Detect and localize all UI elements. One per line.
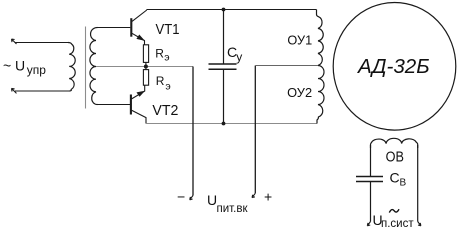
label Cв — [390, 170, 407, 189]
wire Cв to bottom terminal — [370, 182, 372, 222]
wire ОУ tap to plus wire — [255, 65, 318, 67]
resistor R2 — [143, 70, 148, 86]
svg-text:э: э — [165, 81, 170, 93]
svg-text:+: + — [264, 189, 272, 205]
winding ОВ — [371, 138, 418, 148]
terminal arrow ОВ right — [418, 222, 421, 226]
svg-text:C: C — [390, 170, 400, 186]
terminal arrow ОВ left — [367, 222, 370, 226]
wire minus vertical — [192, 67, 194, 196]
svg-text:VT2: VT2 — [152, 103, 178, 119]
transistor VT2 — [131, 85, 146, 123]
svg-text:R: R — [156, 74, 165, 88]
node junction dot resistors/tap — [144, 65, 148, 69]
label R1 — [155, 46, 169, 63]
transformer primary winding — [68, 43, 75, 92]
winding ОУ2 — [317, 66, 324, 124]
VT2 emitter arrow — [137, 91, 144, 96]
svg-text:АД-32Б: АД-32Б — [356, 55, 430, 78]
transformer core — [85, 27, 87, 109]
capacitor Cв — [356, 177, 383, 182]
label Uпит.вк — [207, 192, 248, 215]
svg-text:В: В — [400, 178, 407, 189]
wire ОВ left lead — [370, 145, 372, 176]
wire secondary top lead to VT1 base — [98, 27, 131, 29]
svg-text:пит.вк: пит.вк — [217, 203, 249, 215]
svg-text:у: у — [236, 50, 242, 64]
svg-text:упр: упр — [27, 63, 46, 77]
node dot cap top rail — [222, 8, 226, 12]
wire secondary bottom lead to VT2 base — [98, 104, 131, 106]
svg-text:ОВ: ОВ — [386, 150, 404, 166]
wire plus vertical — [254, 66, 256, 194]
resistor R1 — [143, 45, 148, 63]
wire top rail — [147, 9, 317, 11]
wire source top lead — [15, 42, 68, 44]
wire center tap (gray) to minus wire — [96, 66, 193, 68]
winding ОУ1 — [317, 10, 324, 66]
terminal arrow top-left — [12, 39, 17, 44]
svg-text:U: U — [15, 58, 25, 74]
label Uп.сист with tilde — [0, 0, 1, 1]
svg-text:~: ~ — [3, 58, 11, 74]
label Cу — [227, 44, 242, 64]
wire ОВ right lead — [417, 145, 419, 222]
svg-text:VT1: VT1 — [156, 22, 180, 38]
terminal arrow bottom-left — [12, 88, 17, 93]
svg-text:−: − — [177, 189, 185, 205]
wire R1 to dot — [145, 62, 147, 69]
VT1 emitter arrow — [137, 35, 144, 40]
svg-text:э: э — [164, 52, 169, 64]
svg-text:ОУ1: ОУ1 — [287, 33, 312, 48]
terminal arrow plus — [252, 193, 255, 197]
wire source bottom lead — [15, 90, 70, 92]
motor АД-32Б circle — [333, 3, 456, 131]
terminal arrow minus — [190, 196, 193, 200]
capacitor Cу — [209, 10, 237, 124]
source ~Uупр label — [3, 58, 46, 78]
label R2 — [156, 74, 171, 92]
node dot cap bottom rail — [222, 122, 226, 126]
svg-text:п.сист: п.сист — [381, 218, 414, 230]
transformer secondary winding — [90, 28, 98, 105]
transistor VT1 — [131, 10, 147, 45]
wire bottom rail (gray) — [146, 123, 317, 125]
svg-text:ОУ2: ОУ2 — [287, 85, 312, 100]
svg-text:R: R — [155, 46, 164, 60]
